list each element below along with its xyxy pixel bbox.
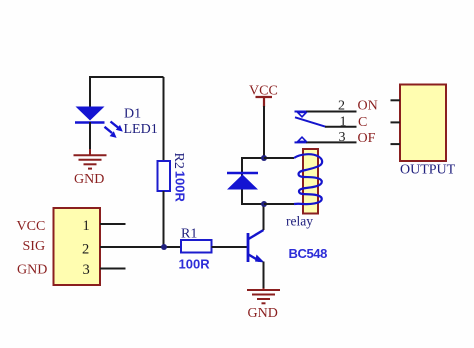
svg-text:SIG: SIG [23,239,46,254]
resistor R1 [181,240,212,253]
wire R2 branch upper [163,77,165,162]
wire collector up [263,204,265,230]
node bottom (collector/diode/coil) [261,201,267,207]
wire LED cathode to ground [89,122,91,150]
diode D2 flyback [227,173,258,190]
svg-text:GND: GND [74,172,104,187]
ground under LED [74,149,107,169]
transistor Q1 BC548 [248,230,265,263]
svg-text:VCC: VCC [17,219,46,234]
connector J1 [54,208,101,285]
power bar VCC [256,97,273,107]
svg-text:GND: GND [248,306,278,321]
wire pin1 stub [100,223,126,225]
switch blade C [295,117,357,126]
wire OUTPUT pin stub 1 [391,99,401,101]
svg-text:OUTPUT: OUTPUT [400,163,456,178]
svg-text:3: 3 [339,130,346,145]
switch contact pin 2 ON [295,112,357,117]
ground under transistor [247,288,280,303]
svg-text:100R: 100R [179,257,211,272]
wire diode branch [242,158,264,204]
svg-text:LED1: LED1 [124,122,158,137]
wire R2 bottom to junction [163,191,165,247]
svg-text:ON: ON [358,99,378,114]
wire pin2 to R1 [100,246,181,248]
svg-text:1: 1 [83,218,90,234]
wire R1 to base [212,246,248,248]
svg-text:GND: GND [17,263,47,278]
node junction R2/pin2 [161,244,167,250]
connector OUTPUT [400,85,446,162]
wire OUTPUT pin stub 2 [391,121,401,123]
svg-text:1: 1 [340,115,347,130]
resistor R2 [158,161,171,191]
led D1 [75,107,123,138]
svg-text:BC548: BC548 [289,246,328,261]
wire pin3 stub [100,268,126,270]
wire top horizontal LED to R2 [90,76,164,78]
switch contact pin 3 OF [295,137,357,142]
wire OUTPUT pin stub 3 [391,143,401,145]
wire VCC down [263,106,265,158]
svg-text:3: 3 [83,262,90,278]
wire LED branch vertical top [89,76,91,107]
svg-text:100R: 100R [173,171,188,203]
wire emitter down [263,262,265,291]
svg-text:C: C [358,115,367,130]
wire bottom node to coil [264,203,294,205]
svg-text:2: 2 [338,99,345,114]
svg-text:relay: relay [286,214,313,229]
svg-text:OF: OF [358,131,376,146]
svg-text:D1: D1 [124,107,141,122]
svg-text:2: 2 [82,242,89,258]
node top (VCC/diode/coil) [261,155,267,161]
svg-text:R2: R2 [171,153,186,169]
relay coil [294,149,322,214]
svg-text:R1: R1 [181,227,197,242]
wire top node to coil [264,157,294,159]
